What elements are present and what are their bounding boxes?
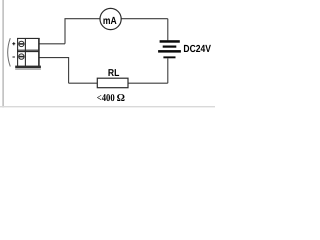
svg-text:Ω: Ω: [117, 93, 125, 104]
svg-text:mA: mA: [103, 16, 117, 27]
svg-text:DC24V: DC24V: [183, 44, 211, 55]
svg-text:RL: RL: [108, 68, 120, 79]
svg-text:<400: <400: [97, 93, 115, 104]
